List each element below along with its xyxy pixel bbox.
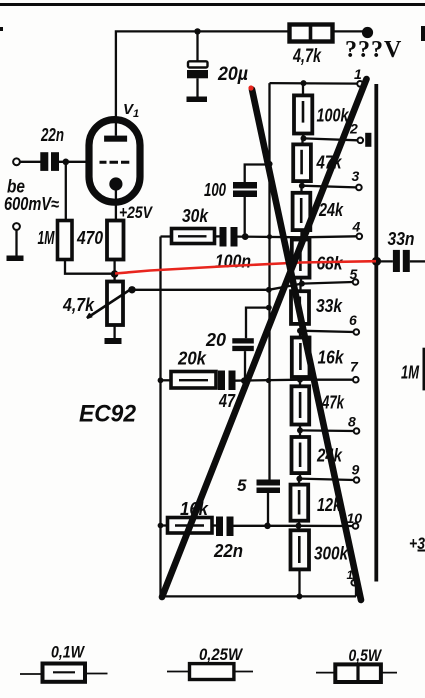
node grid junction xyxy=(63,159,70,166)
wire bus to 33n xyxy=(377,260,393,262)
node ladder6 / wire tap6 xyxy=(297,328,303,334)
node ladder2 / wire tap2 xyxy=(301,135,307,141)
node rail wiper xyxy=(266,287,272,293)
switch contact 5 xyxy=(353,279,359,285)
wire tap11 riser xyxy=(355,586,357,597)
node ladder10 / wire tap10 xyxy=(296,523,302,529)
resistor 47k lower xyxy=(292,380,310,431)
capacitor 22n input xyxy=(40,152,59,171)
node rail 20k xyxy=(158,377,164,383)
wire ladder top xyxy=(270,82,358,85)
wire to grid xyxy=(59,161,91,163)
wire 1M bottom to cathode node xyxy=(65,260,115,274)
ground 20u xyxy=(187,97,208,103)
node ladder7 / wire tap7 xyxy=(297,377,303,383)
node rail cross 20k row xyxy=(266,378,271,383)
svg-text:1M: 1M xyxy=(38,228,56,248)
node cathode junction xyxy=(111,270,119,278)
svg-text:9: 9 xyxy=(352,462,360,478)
svg-text:47k: 47k xyxy=(321,393,344,413)
node bus output xyxy=(372,257,381,266)
svg-text:33k: 33k xyxy=(316,296,343,316)
switch wiper bus xyxy=(374,84,378,582)
switch contact 11 xyxy=(351,580,357,586)
wire to 20u xyxy=(196,31,198,61)
svg-text:30k: 30k xyxy=(182,206,209,226)
svg-text:33n: 33n xyxy=(388,229,415,249)
switch contact 4 xyxy=(357,234,363,240)
clipped component top-right edge xyxy=(421,26,425,41)
svg-text:5: 5 xyxy=(350,266,358,282)
switch contact 10 xyxy=(353,523,359,529)
svg-text:5: 5 xyxy=(237,476,247,495)
switch contact 8 xyxy=(354,428,360,434)
legend resistor 0,5W xyxy=(316,664,397,682)
wire cathode down xyxy=(115,184,116,220)
svg-text:20k: 20k xyxy=(177,349,207,369)
border frame left tick xyxy=(0,27,3,31)
resistor 33k xyxy=(291,284,309,331)
resistor 1M xyxy=(58,221,73,260)
resistor 4,7k (0,5W style) xyxy=(290,25,333,42)
node rail cap20 xyxy=(266,305,272,311)
svg-text:3: 3 xyxy=(352,168,360,184)
node ladder5 / wire tap5 xyxy=(299,281,305,287)
node ladder1 xyxy=(301,80,307,86)
svg-text:16k: 16k xyxy=(318,348,345,368)
wire pot to ground xyxy=(113,325,115,339)
svg-text:???V: ???V xyxy=(345,37,402,63)
wire wiper to ladder xyxy=(132,284,302,290)
capacitor 100 xyxy=(233,165,270,237)
switch contact 1 xyxy=(357,81,363,87)
svg-text:0,25W: 0,25W xyxy=(199,645,244,664)
node ladder9 / wire tap9 xyxy=(296,476,302,482)
resistor 30k xyxy=(161,229,215,244)
node bottom junction xyxy=(296,593,302,599)
svg-text:600mV≈: 600mV≈ xyxy=(4,194,59,214)
resistor 12k xyxy=(291,479,309,526)
svg-text:EC92: EC92 xyxy=(79,401,137,428)
capacitor 33n output xyxy=(393,250,425,272)
node ladder8 / wire tap8 xyxy=(297,427,303,433)
svg-text:22n: 22n xyxy=(40,125,64,145)
svg-text:0,1W: 0,1W xyxy=(51,643,86,662)
svg-text:4: 4 xyxy=(352,219,361,235)
svg-text:0,5W: 0,5W xyxy=(349,646,383,665)
switch contact 6 xyxy=(354,329,360,335)
capacitor 5 xyxy=(257,480,281,526)
border frame top line xyxy=(0,3,425,6)
node ladder4 / wire tap4 xyxy=(300,234,306,240)
resistor 47k xyxy=(293,138,311,185)
capacitor 20 xyxy=(232,308,268,381)
node rail 16k xyxy=(158,523,164,529)
annotation X line 2 xyxy=(252,90,361,601)
potentiometer 4,7k body xyxy=(107,282,123,326)
tube anode xyxy=(104,136,127,142)
ground input terminal xyxy=(7,223,24,261)
capacitor 20u electrolytic xyxy=(187,61,208,96)
svg-text:20µ: 20µ xyxy=(217,64,248,85)
annotation red dot xyxy=(248,85,253,90)
switch contact 3 xyxy=(356,185,362,191)
svg-text:4,7k: 4,7k xyxy=(62,295,95,315)
node 47 out xyxy=(241,377,248,384)
node supply dot xyxy=(362,27,373,38)
node cap100 bottom xyxy=(242,233,249,240)
svg-text:6: 6 xyxy=(349,312,357,328)
wire top supply rail xyxy=(116,31,290,135)
resistor 20k xyxy=(161,372,217,389)
resistor 16k ladder xyxy=(292,331,310,380)
resistor 1M clipped right xyxy=(423,348,425,391)
resistor 24k xyxy=(293,186,311,238)
wire input to cap xyxy=(20,161,41,163)
wire mid rail upper xyxy=(268,83,270,479)
legend resistor 0,1W xyxy=(20,664,108,682)
node rail cross xyxy=(267,234,272,239)
capacitor 22n series xyxy=(212,517,234,537)
wire 47 to ladder node7 xyxy=(233,380,301,381)
legend resistor 0,25W xyxy=(167,664,253,680)
svg-text:7: 7 xyxy=(350,359,359,375)
resistor 68k xyxy=(292,237,310,283)
svg-text:1: 1 xyxy=(133,108,139,120)
capacitor 47 series xyxy=(216,371,236,391)
wire 470 bottom to pot xyxy=(113,258,115,282)
tube V1 envelope xyxy=(89,120,140,203)
svg-text:300k: 300k xyxy=(314,544,349,564)
svg-text:100: 100 xyxy=(204,180,226,200)
switch contact 9 xyxy=(354,477,360,483)
tube grid dashes xyxy=(100,161,130,164)
svg-text:22n: 22n xyxy=(213,541,243,561)
wire junction to 1M xyxy=(65,162,67,220)
resistor 16k xyxy=(161,518,213,534)
node ladder3 / wire tap3 xyxy=(299,183,305,189)
switch contact 7 xyxy=(353,377,359,383)
svg-text:100k: 100k xyxy=(317,106,350,126)
svg-text:20: 20 xyxy=(205,330,226,350)
svg-text:24k: 24k xyxy=(318,200,344,220)
wire left rail xyxy=(161,237,357,597)
svg-text:100n: 100n xyxy=(215,252,251,272)
tube cathode dot xyxy=(109,177,122,190)
svg-text:68k: 68k xyxy=(317,254,344,274)
potentiometer wiper dot xyxy=(128,286,135,293)
svg-text:1: 1 xyxy=(354,66,362,82)
node junction 20u xyxy=(194,28,200,34)
annotation X line 1 xyxy=(162,79,367,597)
resistor 300k xyxy=(291,526,310,597)
wire 100n to ladder node4 xyxy=(238,235,304,238)
wire 22n to ladder node10 xyxy=(233,525,299,527)
resistor 100k xyxy=(294,83,312,138)
svg-text:1M: 1M xyxy=(401,363,420,383)
node cap5 bottom xyxy=(264,523,271,530)
svg-text:4,7k: 4,7k xyxy=(292,46,322,67)
wire annotation red line xyxy=(115,261,376,273)
capacitor 100n series xyxy=(215,227,238,247)
resistor 470 xyxy=(107,221,124,260)
switch contact 2 xyxy=(358,138,364,144)
ground pot xyxy=(105,338,122,344)
node cap100 top on rail xyxy=(267,161,273,167)
resistor 24k lower xyxy=(292,430,310,478)
wire rail to node xyxy=(331,30,363,32)
svg-text:10: 10 xyxy=(347,510,363,526)
terminal input xyxy=(13,158,20,165)
svg-text:8: 8 xyxy=(348,414,356,430)
svg-text:470: 470 xyxy=(76,228,103,248)
potentiometer arrow xyxy=(87,289,131,318)
switch wiper contact mark xyxy=(365,133,371,147)
